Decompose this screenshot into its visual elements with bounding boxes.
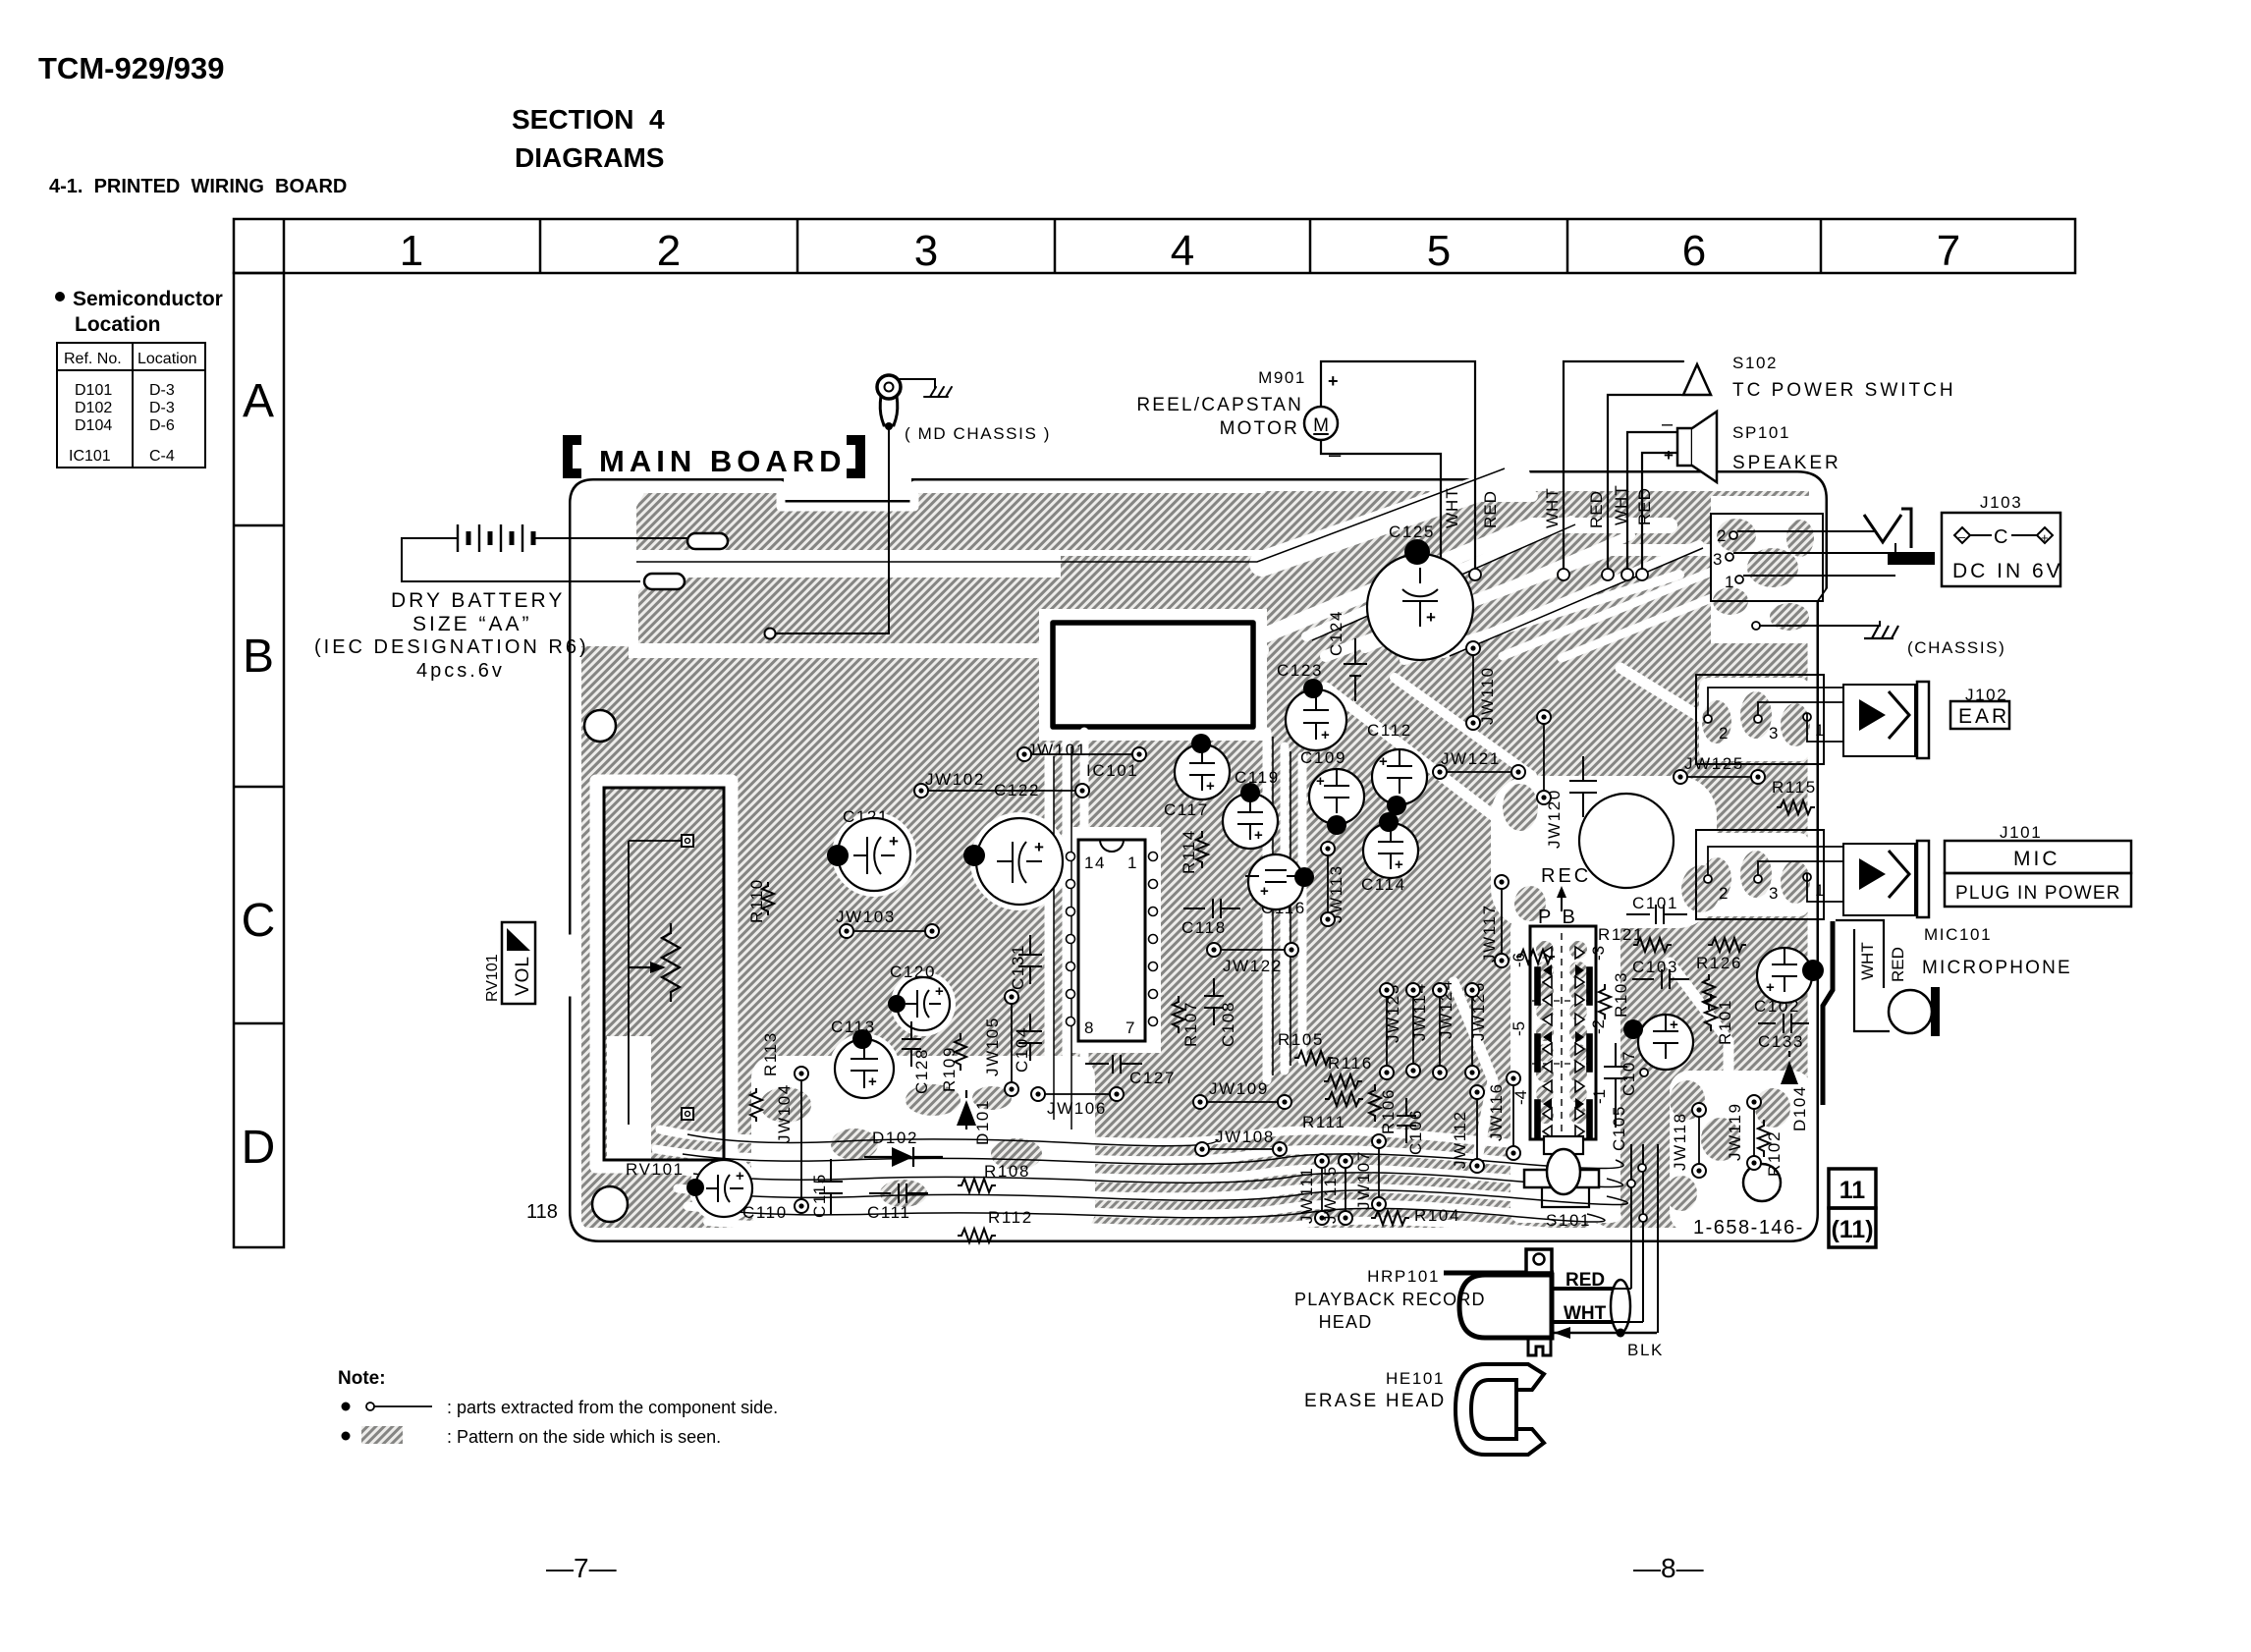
blobs in J101 box [1702,857,1731,901]
PLUG IN POWER box [1945,873,2131,907]
svg-text:+: + [1260,883,1269,900]
svg-text:D101: D101 [973,1099,992,1145]
svg-text:C125: C125 [1389,523,1435,541]
svg-text:+: + [736,1168,744,1184]
svg-text:JW107: JW107 [1354,1150,1373,1210]
svg-text:C124: C124 [1327,610,1345,656]
motor M901 [1304,407,1338,440]
svg-text:JW122: JW122 [1223,957,1283,975]
blobs top right corner [1717,519,1756,552]
connector J102 pin block [1696,675,1824,764]
svg-text:JW101: JW101 [1027,741,1087,759]
svg-text:PLAYBACK RECORD: PLAYBACK RECORD [1294,1290,1486,1309]
svg-text:VOL: VOL [513,956,533,996]
svg-text:C103: C103 [1632,958,1678,976]
wire MD chassis to board pad [777,430,889,633]
svg-text:3: 3 [1713,550,1724,569]
svg-text:D-6: D-6 [149,417,175,434]
blobs in J102 box [1702,700,1731,743]
svg-text:3: 3 [1769,884,1780,903]
svg-text:JW116: JW116 [1487,1082,1506,1141]
gap band between bars [625,550,1061,578]
svg-text:JW119: JW119 [1726,1102,1744,1161]
svg-text:MIC101: MIC101 [1924,925,1992,944]
svg-text:JW117: JW117 [1480,904,1499,963]
svg-text:M: M [1313,415,1329,436]
connector J103 pin block [1711,514,1823,601]
svg-text:R111: R111 [1302,1113,1346,1131]
svg-text:R106: R106 [1379,1088,1398,1134]
svg-text:8: 8 [1084,1019,1095,1037]
svg-text:PLUG IN POWER: PLUG IN POWER [1955,883,2121,904]
svg-text:118: 118 [526,1201,558,1223]
svg-text:R114: R114 [1180,829,1198,874]
svg-text:+: + [2041,530,2049,545]
DC plug symbol [1864,515,1901,542]
svg-text:D-3: D-3 [149,382,175,399]
svg-text:D102: D102 [75,400,112,416]
head leads [1554,1287,1613,1291]
left ruler column [234,273,284,1247]
jack J101 symbol [1843,844,1915,915]
svg-text:RED: RED [1481,490,1500,528]
oval pad 2 [644,574,685,589]
board hole top left [584,710,616,742]
svg-text:MICROPHONE: MICROPHONE [1922,958,2072,978]
svg-text:R104: R104 [1414,1206,1460,1225]
svg-text:–: – [1958,529,1966,544]
svg-text:+: + [1316,773,1325,790]
bottom right white corner [1670,1071,1812,1233]
svg-text:TCM-929/939: TCM-929/939 [38,51,225,85]
svg-text:C107: C107 [1620,1050,1638,1096]
svg-text:C112: C112 [1367,721,1412,740]
svg-text:JW108: JW108 [1215,1128,1275,1146]
copper bar top 1 [636,493,1265,550]
svg-text:C117: C117 [1164,800,1209,819]
svg-text:+: + [1321,727,1330,743]
svg-text:C123: C123 [1277,661,1323,680]
svg-text:JW121: JW121 [1441,749,1501,768]
svg-text:+: + [1664,446,1674,465]
svg-text:C127: C127 [1129,1069,1176,1087]
svg-text:-1: -1 [1590,1089,1609,1104]
svg-text:IC101: IC101 [1086,761,1138,780]
svg-text:-2: -2 [1589,1019,1608,1034]
svg-text:-5: -5 [1510,1021,1528,1036]
diagonal channels top right [1262,475,1517,564]
svg-text:SIZE “AA”: SIZE “AA” [412,613,532,635]
svg-text:: parts extracted from the co: : parts extracted from the component sid… [447,1398,778,1417]
J103 DC IN 6V box [1942,513,2060,586]
ground lug (MD CHASSIS) [877,375,901,399]
svg-text:SECTION 4: SECTION 4 [512,104,665,135]
svg-text:—8—: —8— [1633,1553,1704,1583]
svg-text:HEAD: HEAD [1319,1312,1373,1332]
svg-text:4pcs.6v: 4pcs.6v [416,660,505,682]
switch S102 [1683,364,1711,395]
svg-text:+: + [1426,608,1436,627]
svg-text:TC POWER SWITCH: TC POWER SWITCH [1732,380,1956,401]
svg-text:ERASE HEAD: ERASE HEAD [1304,1391,1446,1411]
thin trace lines inside channels [636,468,1703,1222]
svg-text:R116: R116 [1328,1054,1373,1073]
svg-text:(11): (11) [1831,1216,1873,1243]
svg-text:1: 1 [1815,721,1826,740]
svg-text:A: A [243,375,274,427]
svg-text:C104: C104 [1013,1026,1031,1073]
battery wires [402,538,640,581]
svg-text:MIC: MIC [2013,848,2060,870]
svg-text:+: + [1670,1017,1678,1033]
svg-text:+: + [1379,753,1388,770]
wires into board [1631,1144,1658,1333]
svg-text:R103: R103 [1612,971,1630,1018]
svg-text:(CHASSIS): (CHASSIS) [1907,638,2005,657]
svg-text:R105: R105 [1278,1030,1324,1049]
svg-text:P B: P B [1538,907,1578,928]
svg-text:RED: RED [1635,487,1654,525]
svg-text:JW109: JW109 [1209,1079,1269,1098]
board hole bottom left [592,1186,628,1222]
MAIN BOARD heading with brackets [568,440,860,478]
svg-text:1: 1 [400,227,423,275]
S101 mount plate [1544,1136,1583,1154]
svg-text:HE101: HE101 [1386,1369,1445,1388]
svg-text:RED: RED [1587,490,1606,528]
svg-text:( MD CHASSIS ): ( MD CHASSIS ) [905,424,1051,443]
grid header row [234,219,2075,273]
svg-text:SP101: SP101 [1732,423,1790,442]
svg-text:JW105: JW105 [983,1017,1002,1076]
sheet number boxes [1829,1169,1876,1247]
svg-text:C: C [1994,526,2007,548]
svg-text:JW112: JW112 [1451,1110,1469,1169]
speaker SP101 [1677,428,1692,466]
svg-text:JW115: JW115 [1321,1165,1340,1224]
svg-text:D102: D102 [872,1129,918,1147]
svg-text:D: D [242,1122,276,1174]
svg-text:11: 11 [1839,1177,1866,1204]
svg-text:+: + [868,1074,877,1090]
svg-text:5: 5 [1427,227,1451,275]
svg-text:S101: S101 [1546,1211,1591,1230]
svg-text:DC IN 6V: DC IN 6V [1952,560,2063,582]
svg-text:—7—: —7— [546,1553,617,1583]
svg-text:EAR: EAR [1958,705,2009,728]
svg-text:C105: C105 [1610,1105,1628,1151]
ground MD chassis [924,387,952,397]
cable bundle [1611,1280,1630,1333]
svg-text:+: + [1254,827,1263,844]
svg-text:C-4: C-4 [149,448,175,465]
REC big white zone [1491,776,1717,928]
svg-text:HRP101: HRP101 [1367,1267,1440,1286]
svg-text:2: 2 [657,227,681,275]
svg-text:R107: R107 [1181,1001,1200,1047]
svg-text:JW103: JW103 [836,908,896,926]
svg-text:+: + [1328,371,1339,391]
wire motor + [1321,361,1475,570]
blobs bottom right corner zone [1670,1080,1705,1120]
svg-text:RV101: RV101 [626,1160,685,1179]
board hole bottom right [1743,1164,1781,1201]
svg-text:2: 2 [1719,884,1729,903]
svg-text:C111: C111 [867,1203,911,1222]
svg-text:1-658-146-: 1-658-146- [1693,1217,1804,1239]
svg-text:IC101: IC101 [69,448,111,465]
svg-text:: Pattern on the side which i: : Pattern on the side which is seen. [447,1427,721,1447]
blobs in REC zone [1503,784,1538,831]
svg-text:DIAGRAMS: DIAGRAMS [515,142,664,173]
svg-text:2: 2 [1719,724,1729,743]
svg-text:C109: C109 [1300,748,1346,767]
svg-text:R113: R113 [761,1031,780,1076]
misc channels right half [1326,688,1493,815]
svg-text:7: 7 [1937,227,1960,275]
svg-text:M901: M901 [1258,368,1306,387]
white margin inside outline [538,477,1821,1236]
svg-text:14: 14 [1084,854,1106,872]
wire S102 a [1564,361,1683,570]
svg-text:WHT: WHT [1612,484,1630,525]
wire SP101 - [1627,432,1677,570]
oval pad 1 [687,533,728,549]
svg-text:C115: C115 [810,1173,829,1218]
MIC box [1945,841,2131,873]
svg-text:Semiconductor: Semiconductor [73,288,223,310]
svg-text:+: + [889,832,899,851]
wire SP101 + [1642,453,1677,570]
big white display rectangle [1039,609,1267,741]
chassis ground [1752,622,1760,630]
svg-text:1: 1 [1127,854,1138,872]
svg-text:MOTOR: MOTOR [1220,418,1299,439]
svg-text:+: + [935,983,944,1000]
svg-text:+: + [1206,778,1215,795]
svg-text:2: 2 [1717,526,1728,545]
bottom band horizontal channels [660,1129,1598,1147]
top right corner white zone [1711,496,1811,643]
svg-text:R115: R115 [1772,778,1817,797]
svg-text:JW110: JW110 [1478,666,1497,725]
BLK arrow [1554,1332,1657,1335]
svg-text:J101: J101 [2000,823,2042,842]
svg-text:C133: C133 [1758,1032,1804,1051]
svg-text:BLK: BLK [1627,1341,1664,1359]
svg-text:C110: C110 [742,1203,788,1222]
svg-text:WHT: WHT [1443,487,1461,528]
svg-text:C119: C119 [1235,768,1280,787]
svg-text:7: 7 [1125,1019,1136,1037]
svg-text:REEL/CAPSTAN: REEL/CAPSTAN [1136,395,1303,415]
wire color labels [1443,484,1654,528]
IC101 white zone [1063,827,1161,1053]
svg-text:RED: RED [1889,947,1907,982]
S101 pin numbers [1510,946,1609,1105]
svg-text:+: + [1395,856,1403,873]
S101 white column [1510,918,1620,1223]
svg-text:WHT: WHT [1543,487,1562,528]
svg-text:3: 3 [1769,724,1780,743]
svg-text:R108: R108 [984,1162,1030,1181]
vertical channel bundle center [1045,746,1054,1120]
svg-text:D104: D104 [75,417,112,434]
svg-text:C128: C128 [912,1048,931,1094]
gap under bar2 [629,643,1041,658]
white around C121 C122 [832,812,916,897]
volume control RV101 [604,788,724,1160]
copper top right block [1265,491,1809,648]
svg-text:JW118: JW118 [1671,1112,1689,1171]
svg-text:C118: C118 [1181,918,1227,937]
svg-text:1: 1 [1725,573,1735,591]
svg-text:D-3: D-3 [149,400,175,416]
svg-text:+: + [1034,838,1044,856]
svg-text:-3: -3 [1589,946,1608,961]
switch S101 [1530,926,1596,1139]
svg-text:D101: D101 [75,382,112,399]
pads for external wires [1469,569,1481,580]
svg-text:4-1. PRINTED WIRING BOARD: 4-1. PRINTED WIRING BOARD [49,176,347,197]
svg-text:Ref. No.: Ref. No. [64,351,122,367]
svg-text:C: C [242,895,276,947]
svg-text:JW125: JW125 [1684,754,1744,773]
svg-text:RED: RED [1565,1270,1605,1291]
svg-text:WHT: WHT [1564,1303,1607,1324]
battery pack [458,524,533,552]
svg-text:R126: R126 [1696,954,1742,972]
wires to DC jack [1733,531,1895,576]
EAR box [1950,701,2009,729]
svg-text:R110: R110 [747,878,766,923]
svg-text:MAIN BOARD: MAIN BOARD [599,444,847,478]
svg-text:D104: D104 [1790,1085,1809,1131]
jack J102 symbol [1843,685,1915,756]
svg-text:J103: J103 [1980,493,2022,512]
wire S102 b [1608,395,1681,570]
bottom left white zone [751,1056,1095,1233]
VOL slider [502,922,535,1004]
main board outline [534,473,1825,1239]
svg-text:4: 4 [1171,227,1194,275]
svg-text:Note:: Note: [338,1368,386,1389]
copper bar top 2 [638,578,1395,643]
svg-text:JW106: JW106 [1047,1099,1107,1118]
REC/PB indicator [1579,794,1674,888]
svg-text:RV101: RV101 [484,954,501,1002]
svg-text:1: 1 [1815,881,1826,900]
svg-text:REC: REC [1541,865,1591,887]
svg-text:JW104: JW104 [775,1083,794,1143]
svg-text:B: B [243,631,274,683]
svg-text:R101: R101 [1716,999,1734,1045]
svg-text:3: 3 [914,227,938,275]
svg-text:WHT: WHT [1858,942,1877,980]
wire lug to ground symbol [900,379,935,388]
svg-text:S102: S102 [1732,354,1778,372]
svg-text:DRY BATTERY: DRY BATTERY [391,589,565,612]
svg-text:R102: R102 [1765,1130,1784,1177]
white zone around RV101 [596,781,732,1167]
svg-text:Location: Location [137,351,197,367]
wire motor - [1321,440,1441,570]
blobs bottom-left white zone [760,1087,811,1123]
svg-text:R121: R121 [1598,925,1644,944]
svg-text:6: 6 [1682,227,1706,275]
svg-text:(IEC DESIGNATION R6): (IEC DESIGNATION R6) [314,636,589,658]
copper main mass [581,646,1809,1228]
svg-text:+: + [1766,979,1775,996]
svg-text:Location: Location [75,313,161,336]
svg-text:JW111: JW111 [1297,1167,1316,1224]
connector J101 pin block [1696,830,1824,919]
svg-text:JW102: JW102 [925,770,985,789]
semiconductor location table [55,292,65,302]
svg-text:SPEAKER: SPEAKER [1732,453,1841,473]
svg-text:R112: R112 [988,1208,1033,1227]
